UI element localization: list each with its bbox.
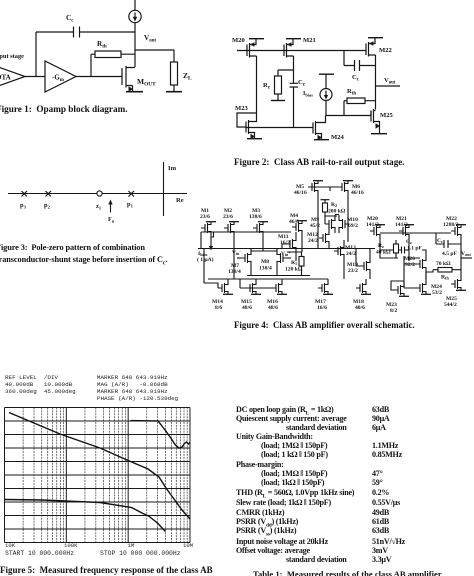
svg-text:M23: M23 (235, 105, 249, 112)
svg-text:Fu: Fu (108, 216, 115, 223)
transistor M21 (395, 216, 414, 240)
resistor R1 (285, 252, 304, 276)
resistor Rth (433, 261, 461, 281)
current source (bias) (134, 0, 136, 11)
svg-text:544/2: 544/2 (444, 302, 457, 308)
wire: gate bus M20/M21/M22 (237, 50, 366, 52)
svg-text:92/2: 92/2 (405, 262, 415, 268)
transistor M9 (310, 215, 335, 233)
wire: M20 drain to Rz node (380, 240, 398, 258)
transistor M24 (416, 279, 442, 296)
svg-text:8/6: 8/6 (215, 305, 222, 311)
current source Ibias (arrow) (197, 237, 214, 263)
wire: left rail to M14 (204, 249, 272, 289)
ground (Rz) (271, 100, 285, 102)
svg-text:Im: Im (168, 165, 177, 172)
transistor M17 (315, 279, 333, 311)
svg-text:p2: p2 (44, 202, 51, 209)
capacitor Cc (436, 233, 461, 257)
svg-text:46/6: 46/6 (289, 219, 299, 225)
wire: right gate bus M20-M22 (380, 232, 451, 234)
svg-text:input stage: input stage (0, 53, 24, 60)
transistor M7 (228, 249, 251, 275)
transistor M13 (334, 242, 356, 260)
wire: M24 drain to Rth (426, 270, 433, 279)
wire: mid horizontal bus (198, 248, 375, 250)
ground (M24) (314, 139, 329, 141)
svg-text:Rz: Rz (263, 82, 271, 90)
wire: M4 drain to R1 (287, 236, 302, 252)
resistor R2 (321, 200, 346, 217)
node Vout (461, 251, 472, 258)
svg-text:p1: p1 (127, 201, 134, 208)
wire: OTA output to -Gm input (25, 76, 45, 78)
caption table 1 (clipped at page bottom) (253, 569, 442, 576)
transistor M16 (267, 279, 287, 311)
grid: minor log verticals (23, 408, 187, 543)
wire: M2 drain to M15 region (233, 237, 235, 279)
svg-text:Rz: Rz (378, 243, 384, 249)
resistor ZL (173, 50, 175, 62)
transistor M3 (249, 208, 268, 237)
pole p2 (46, 191, 52, 197)
wire: Rth left leg down to gate wire (90, 54, 92, 76)
power rail (M22) (368, 37, 383, 39)
svg-text:Re: Re (176, 197, 184, 204)
svg-text:R2: R2 (331, 202, 337, 208)
wire: current source to Vout node (134, 23, 136, 67)
transistor M1 (200, 208, 216, 237)
transistor M5 (294, 181, 323, 196)
svg-text:48/6: 48/6 (242, 305, 252, 311)
resistor Rz (376, 240, 399, 258)
wire: M26 gate to node (404, 258, 416, 264)
svg-text:Vin+: Vin+ (281, 250, 291, 257)
svg-text:23/6: 23/6 (200, 214, 210, 220)
caption figure 2 (234, 157, 405, 167)
svg-text:( 1 μA): ( 1 μA) (197, 256, 214, 263)
curve: phase response (wrapped, upper right) (131, 421, 191, 449)
svg-text:120 kΩ: 120 kΩ (285, 267, 303, 273)
svg-text:Cc: Cc (352, 74, 360, 82)
x axis decade labels (5, 542, 15, 549)
svg-text:138/6: 138/6 (249, 214, 262, 220)
wire: R2 to M9/M10 gates (325, 215, 339, 225)
svg-text:Vout: Vout (384, 77, 396, 85)
svg-text:-Gm: -Gm (52, 74, 65, 84)
power rail (M20) (249, 38, 264, 40)
ground (M23) (247, 138, 262, 140)
transistor M22 (443, 216, 466, 240)
svg-text:70 kΩ: 70 kΩ (436, 261, 451, 267)
svg-text:40/6: 40/6 (355, 305, 365, 311)
svg-text:48/6: 48/6 (268, 305, 278, 311)
svg-text:p3: p3 (20, 202, 27, 209)
wire: M12/M13 column (329, 226, 344, 279)
pole p3 (22, 191, 28, 197)
svg-text:200 kΩ: 200 kΩ (328, 209, 346, 215)
wire: M21 drain down through Cz node (293, 56, 295, 83)
op-amp OTA (clipped at page edge) (0, 62, 25, 91)
svg-text:M20: M20 (232, 37, 246, 44)
svg-text:1288/2: 1288/2 (443, 222, 459, 228)
svg-text:Cz: Cz (298, 79, 306, 87)
arrow: unity-gain frequency marker (110, 203, 112, 213)
axis Im (163, 162, 165, 216)
wire: M3 drain to diff pair (251, 237, 277, 251)
transistor M8 (259, 249, 287, 272)
ground (M25) (371, 133, 387, 135)
transistor MOUT (122, 66, 135, 92)
transistor M25 (444, 275, 466, 308)
transistor M2 (223, 208, 239, 237)
svg-text:Ibias: Ibias (303, 91, 313, 97)
transistor M20 (366, 216, 385, 240)
axis Re (8, 193, 187, 195)
wire: M23 gate loop (391, 281, 404, 290)
svg-text:Cc: Cc (66, 14, 74, 24)
wire: mirror bus above M14-M17 (208, 278, 328, 280)
svg-text:M25: M25 (380, 112, 394, 119)
wire: M20 drain down to M23 (237, 56, 257, 127)
transistor M19 (347, 257, 370, 275)
pole p1 (129, 191, 135, 197)
transistor M10 (339, 215, 358, 233)
start/stop labels (5, 550, 74, 557)
svg-text:23/6: 23/6 (223, 214, 233, 220)
wire: Vout to load (135, 49, 174, 51)
svg-text:4.5 pF: 4.5 pF (442, 251, 458, 257)
svg-text:138/4: 138/4 (259, 266, 272, 272)
analyzer header text (5, 374, 178, 402)
wire: M22 drain to Vout and M25 (460, 240, 462, 275)
svg-text:Rth: Rth (97, 40, 107, 50)
svg-text:45/2: 45/2 (310, 223, 320, 229)
svg-text:Rth: Rth (347, 88, 356, 96)
svg-text:16/6: 16/6 (317, 305, 327, 311)
capacitor Cz (399, 239, 423, 254)
svg-text:Vout: Vout (461, 251, 471, 257)
op-amp -Gm (45, 61, 76, 92)
wire: input-row gate bus (201, 232, 291, 249)
wire: M21 drain column (409, 240, 420, 258)
svg-text:24/2: 24/2 (308, 238, 318, 244)
svg-text:ZL: ZL (183, 71, 192, 82)
wire: Ibias/M24 drain node to M25 gate (326, 115, 371, 117)
caption figure 3 (0, 242, 167, 271)
svg-text:46/16: 46/16 (294, 190, 307, 196)
zero z1 (97, 191, 102, 196)
wire: M19 connections (356, 249, 370, 280)
svg-text:23/2: 23/2 (348, 268, 358, 274)
svg-text:141/2: 141/2 (366, 222, 379, 228)
transistor M15 (241, 279, 261, 311)
wire: diff pair tail (247, 267, 310, 276)
svg-text:M22: M22 (379, 47, 393, 54)
svg-text:53/2: 53/2 (432, 290, 442, 296)
svg-text:M21: M21 (303, 37, 316, 44)
ground (ZL) (166, 91, 182, 93)
svg-text:z1: z1 (96, 203, 102, 210)
svg-text:69/2: 69/2 (348, 223, 358, 229)
wire: M6 drain rail (347, 196, 349, 242)
caption figure 5 (clipped at page bottom) (0, 565, 213, 575)
wire: Vin- gate lead (237, 257, 241, 259)
transistor M4 (289, 213, 307, 236)
svg-text:Vout: Vout (144, 34, 156, 44)
transistor M18 (353, 279, 371, 311)
svg-text:OTA: OTA (0, 74, 11, 82)
ground (MOUT source) (126, 91, 143, 93)
curve: phase response (main) (5, 500, 166, 532)
svg-text:24/2: 24/2 (346, 251, 356, 257)
transistor M12 (307, 229, 329, 247)
wire: M5 drain rail (317, 196, 319, 249)
svg-text:M24: M24 (331, 134, 345, 141)
transistor M11 (278, 234, 296, 253)
wire: M5/M6 gate tie (308, 187, 338, 191)
transistor M6 (338, 181, 364, 196)
wire: M22 drain down to M25 drain (Vout rail) (375, 55, 377, 110)
svg-text:Vin-: Vin- (232, 249, 241, 256)
grid: major decade verticals (5, 408, 191, 543)
svg-text:Cc: Cc (437, 238, 443, 244)
caption figure 4 (234, 320, 415, 330)
curve: magnitude response (9, 413, 190, 520)
node Vin+ (287, 257, 291, 259)
wire: M26 drain/source (404, 250, 426, 288)
wire: -Gm output to MOUT gate (76, 76, 122, 78)
transistor M23 (386, 281, 409, 314)
caption figure 1 (0, 104, 128, 114)
transistor M14 (212, 279, 233, 311)
svg-text:M8: M8 (261, 259, 269, 265)
wire: class-AB gate bus M23/M24 (246, 127, 313, 129)
wire: M11 leads (282, 232, 296, 261)
svg-text:MOUT: MOUT (137, 77, 156, 88)
power rail (M21) (286, 38, 301, 40)
transistor M26 (404, 255, 426, 273)
svg-text:141/2: 141/2 (395, 222, 408, 228)
svg-text:46/16: 46/16 (351, 190, 364, 196)
svg-text:8/2: 8/2 (390, 308, 397, 314)
wire: feedback branch up to Cc (35, 32, 37, 77)
grid: horizontal division lines (5, 408, 191, 543)
svg-text:Rth: Rth (441, 275, 449, 281)
